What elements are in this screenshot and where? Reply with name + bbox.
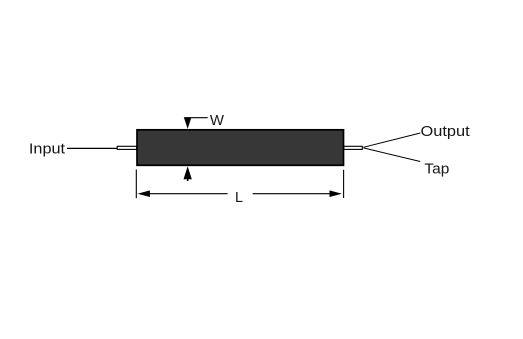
- svg-text:Input: Input: [29, 142, 65, 158]
- input lead (hollow conductor): [117, 146, 136, 149]
- W leader line: [191, 117, 208, 119]
- stripline body (dark bar): [137, 130, 344, 166]
- extension line left: [135, 170, 137, 199]
- W dimension arrow (points down to top edge): [184, 117, 192, 129]
- wire: tap leader line: [363, 148, 420, 162]
- extension line right: [343, 170, 345, 198]
- svg-text:W: W: [210, 113, 225, 129]
- wire: input leader line: [67, 147, 118, 149]
- svg-text:Tap: Tap: [424, 162, 449, 178]
- wire: output leader line: [363, 133, 420, 147]
- W dimension arrow (points up to bottom edge): [184, 166, 192, 179]
- L dimension line right segment: [253, 193, 332, 195]
- output lead (hollow conductor): [344, 146, 362, 149]
- svg-text:L: L: [235, 190, 243, 206]
- L dimension line left segment: [148, 193, 228, 195]
- svg-text:Output: Output: [421, 124, 470, 140]
